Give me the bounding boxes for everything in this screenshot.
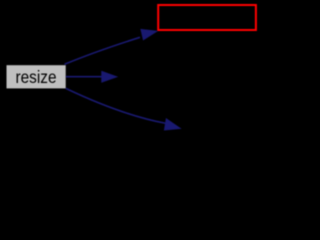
edge resize -> bottom (hidden node): [66, 88, 166, 123]
arrowhead middle: [102, 72, 117, 83]
node (red, truncated callee): [158, 5, 256, 30]
edge resize -> middle (hidden node): [66, 76, 102, 78]
arrowhead top: [141, 30, 157, 40]
svg-text:resize: resize: [16, 67, 57, 87]
edge resize -> red node: [65, 37, 141, 64]
arrowhead bottom: [165, 119, 181, 130]
node resize (current node, grey fill): [7, 65, 66, 88]
